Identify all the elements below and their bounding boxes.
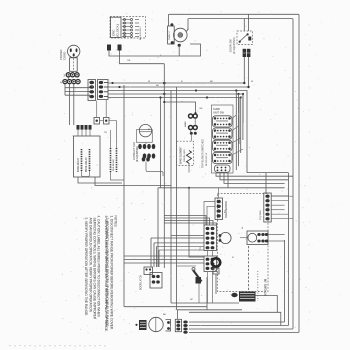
svg-text:BAKE ELEMENT: BAKE ELEMENT: [180, 146, 183, 164]
svg-text:BAKE: BAKE: [184, 121, 187, 127]
svg-text:BAKE RELAY: BAKE RELAY: [77, 157, 80, 172]
svg-text:3. SERVICER PLEASE RETURN DIAG: 3. SERVICER PLEASE RETURN DIAGRAM TO LIT…: [104, 216, 108, 333]
svg-text:SURF: SURF: [213, 107, 220, 111]
svg-text:(IF EQUIPPED): (IF EQUIPPED): [233, 37, 236, 54]
svg-text:OVEN LT: OVEN LT: [169, 30, 171, 40]
svg-text:OR: OR: [127, 60, 131, 62]
svg-text:P2 CONN: P2 CONN: [260, 210, 262, 220]
svg-text:HT GAS JH: HT GAS JH: [264, 278, 268, 296]
svg-text:RF RR LR LF: RF RR LR LF: [206, 152, 208, 166]
svg-text:DOOR LATCH: DOOR LATCH: [140, 275, 143, 290]
svg-text:CORD: CORD: [62, 52, 66, 60]
svg-text:OVEN SENSOR: OVEN SENSOR: [226, 201, 228, 218]
svg-text:M: M: [148, 129, 150, 131]
svg-text:TOP BURNER SWITCHES: TOP BURNER SWITCHES: [202, 139, 205, 168]
svg-text:CONVECT FAN: CONVECT FAN: [133, 142, 136, 160]
svg-text:TR: TR: [104, 132, 107, 134]
svg-text:DLB RELAY: DLB RELAY: [112, 159, 115, 171]
svg-text:2950W 240V: 2950W 240V: [184, 149, 186, 162]
svg-text:BK W R OR Y: BK W R OR Y: [140, 26, 142, 40]
svg-text:BROIL RELAY: BROIL RELAY: [85, 157, 88, 172]
svg-text:(CLOCK): (CLOCK): [116, 24, 120, 37]
svg-text:5. VERIFY PROPER OPERATION AFT: 5. VERIFY PROPER OPERATION AFTER SERVICI…: [84, 218, 88, 317]
